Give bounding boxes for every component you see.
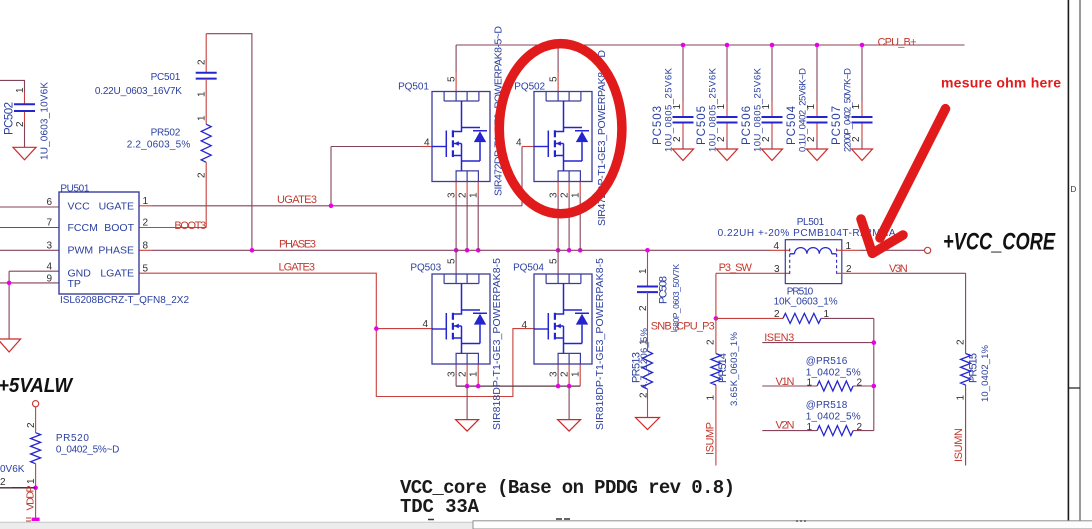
svg-text:8: 8 (143, 240, 149, 251)
svg-text:@PR518: @PR518 (806, 400, 848, 411)
svg-text:mesure ohm here: mesure ohm here (941, 75, 1061, 91)
svg-text:2: 2 (560, 192, 571, 198)
svg-text:4: 4 (516, 138, 522, 149)
svg-text:7: 7 (46, 218, 52, 229)
svg-text:3: 3 (447, 371, 458, 377)
svg-text:1: 1 (706, 395, 717, 401)
svg-text:9: 9 (46, 274, 52, 285)
svg-text:2: 2 (716, 136, 727, 142)
svg-text:PC503: PC503 (652, 106, 664, 145)
svg-text:PQ504: PQ504 (513, 263, 544, 274)
svg-text:TDC 33A: TDC 33A (400, 496, 480, 518)
svg-text:2: 2 (846, 264, 852, 275)
svg-text:+VCC_CORE: +VCC_CORE (943, 229, 1056, 256)
svg-text:1: 1 (638, 268, 649, 274)
svg-text:2: 2 (851, 136, 862, 142)
svg-text:2: 2 (197, 172, 208, 178)
svg-text:2: 2 (706, 339, 717, 345)
svg-text:2: 2 (774, 309, 780, 320)
svg-text:2: 2 (197, 59, 208, 65)
svg-text:SIR818DP-T1-GE3_POWERPAK8-5: SIR818DP-T1-GE3_POWERPAK8-5 (491, 258, 503, 430)
svg-text:1: 1 (806, 422, 812, 433)
svg-text:0.22U_0603_16V7K: 0.22U_0603_16V7K (95, 86, 182, 97)
svg-text:1: 1 (716, 104, 727, 110)
svg-text:5: 5 (447, 76, 458, 82)
svg-text:SNB_CPU_P3: SNB_CPU_P3 (651, 321, 715, 333)
svg-text:3: 3 (549, 371, 560, 377)
svg-text:SIR818DP-T1-GE3_POWERPAK8-5: SIR818DP-T1-GE3_POWERPAK8-5 (594, 258, 606, 430)
svg-text:4: 4 (424, 138, 430, 149)
svg-text:V1N: V1N (776, 376, 795, 388)
svg-text:6: 6 (46, 197, 52, 208)
svg-text:PL501: PL501 (797, 217, 825, 228)
svg-text:3: 3 (549, 192, 560, 198)
svg-text:1: 1 (824, 309, 830, 320)
svg-text:1_0402_5%: 1_0402_5% (806, 368, 861, 379)
svg-text:2: 2 (857, 422, 863, 433)
svg-text:1: 1 (956, 395, 967, 401)
svg-text:1: 1 (806, 378, 812, 389)
svg-text:PHASE3: PHASE3 (279, 239, 316, 251)
svg-text:1: 1 (15, 87, 26, 93)
svg-text:5: 5 (143, 263, 149, 274)
svg-text:4: 4 (46, 262, 52, 273)
svg-text:2: 2 (806, 136, 817, 142)
svg-text:0V6K: 0V6K (0, 464, 25, 475)
svg-text:UGATE3: UGATE3 (277, 194, 317, 206)
svg-text:1: 1 (846, 241, 852, 252)
svg-text:1: 1 (571, 192, 582, 198)
svg-text:@PR516: @PR516 (806, 356, 848, 367)
svg-text:4: 4 (521, 320, 527, 331)
svg-text:1: 1 (197, 91, 208, 97)
svg-text:1: 1 (197, 115, 208, 121)
svg-text:D: D (1071, 185, 1077, 194)
svg-text:1: 1 (26, 478, 37, 484)
svg-text:VDDP: VDDP (25, 486, 37, 511)
svg-text:2: 2 (761, 136, 772, 142)
svg-text:2.2_0603_5%: 2.2_0603_5% (127, 140, 191, 151)
svg-text:PC501: PC501 (151, 72, 181, 83)
svg-text:10K_0603_1%: 10K_0603_1% (774, 297, 838, 308)
svg-text:PWM: PWM (68, 245, 94, 257)
svg-text:4: 4 (422, 319, 428, 330)
svg-text:LGATE3: LGATE3 (279, 261, 316, 273)
svg-text:PQ503: PQ503 (410, 263, 441, 274)
svg-text:PQ502: PQ502 (514, 82, 545, 93)
svg-text:PR520: PR520 (56, 433, 89, 444)
svg-text:1: 1 (806, 104, 817, 110)
svg-text:2: 2 (143, 218, 149, 229)
svg-text:BOOT3: BOOT3 (174, 220, 206, 232)
svg-text:PC505: PC505 (696, 106, 708, 145)
svg-text:2: 2 (672, 136, 683, 142)
svg-text:1: 1 (761, 104, 772, 110)
svg-text:PC506: PC506 (741, 106, 753, 145)
svg-text:2: 2 (26, 422, 37, 428)
svg-text:UGATE: UGATE (99, 201, 134, 213)
svg-text:PHASE: PHASE (98, 245, 134, 257)
svg-text:FCCM: FCCM (68, 222, 98, 234)
svg-text:PR515: PR515 (968, 353, 980, 383)
svg-text:P3_SW: P3_SW (719, 262, 753, 274)
svg-text:1: 1 (672, 104, 683, 110)
svg-text:PC504: PC504 (786, 105, 798, 145)
svg-text:2: 2 (560, 371, 571, 377)
svg-text:5: 5 (447, 258, 458, 264)
svg-text:VCC: VCC (68, 201, 91, 213)
svg-text:V2N: V2N (776, 420, 795, 432)
svg-text:PU501: PU501 (60, 184, 89, 195)
svg-text:2: 2 (639, 392, 650, 398)
svg-text:2: 2 (0, 477, 6, 488)
svg-text:+5VALW: +5VALW (0, 374, 73, 397)
svg-text:2: 2 (15, 121, 26, 127)
svg-text:PR514: PR514 (717, 353, 729, 383)
svg-text:4: 4 (773, 241, 779, 252)
svg-text:PR502: PR502 (151, 128, 181, 139)
svg-text:PC507: PC507 (831, 106, 843, 145)
svg-text:5: 5 (549, 76, 560, 82)
svg-text:ISEN3: ISEN3 (764, 332, 794, 344)
svg-text:1: 1 (639, 339, 650, 345)
svg-text:3.65K_0603_1%: 3.65K_0603_1% (729, 331, 740, 406)
svg-text:BOOT: BOOT (104, 222, 134, 234)
svg-text:1U_0603_10V6K: 1U_0603_10V6K (40, 82, 51, 160)
svg-text:PQ501: PQ501 (398, 82, 429, 93)
svg-text:1: 1 (571, 371, 582, 377)
svg-text:10_0402_1%: 10_0402_1% (980, 344, 991, 402)
svg-text:LGATE: LGATE (100, 268, 134, 280)
svg-text:2: 2 (458, 371, 469, 377)
svg-text:CPU_B+: CPU_B+ (878, 37, 917, 49)
svg-text:3: 3 (774, 264, 780, 275)
svg-text:PC502: PC502 (4, 102, 16, 135)
svg-text:1_0402_5%: 1_0402_5% (806, 412, 861, 423)
svg-text:1: 1 (851, 104, 862, 110)
svg-text:1: 1 (469, 192, 480, 198)
svg-text:PC508: PC508 (658, 276, 670, 304)
svg-text:TP: TP (68, 278, 81, 290)
svg-text:3: 3 (447, 192, 458, 198)
svg-text:ISUMN: ISUMN (953, 428, 965, 462)
svg-text:2: 2 (458, 192, 469, 198)
svg-text:4.7_1206_5%: 4.7_1206_5% (639, 327, 650, 389)
svg-text:3: 3 (46, 241, 52, 252)
svg-text:V3N: V3N (889, 263, 908, 275)
svg-text:2: 2 (638, 305, 649, 311)
svg-text:2: 2 (956, 339, 967, 345)
svg-text:2: 2 (857, 378, 863, 389)
svg-text:1: 1 (469, 371, 480, 377)
svg-text:ISUMP: ISUMP (705, 422, 717, 455)
svg-text:0_0402_5%~D: 0_0402_5%~D (56, 445, 119, 456)
svg-text:ISL6208BCRZ-T_QFN8_2X2: ISL6208BCRZ-T_QFN8_2X2 (60, 295, 189, 306)
svg-text:5: 5 (549, 258, 560, 264)
svg-text:1: 1 (143, 196, 149, 207)
